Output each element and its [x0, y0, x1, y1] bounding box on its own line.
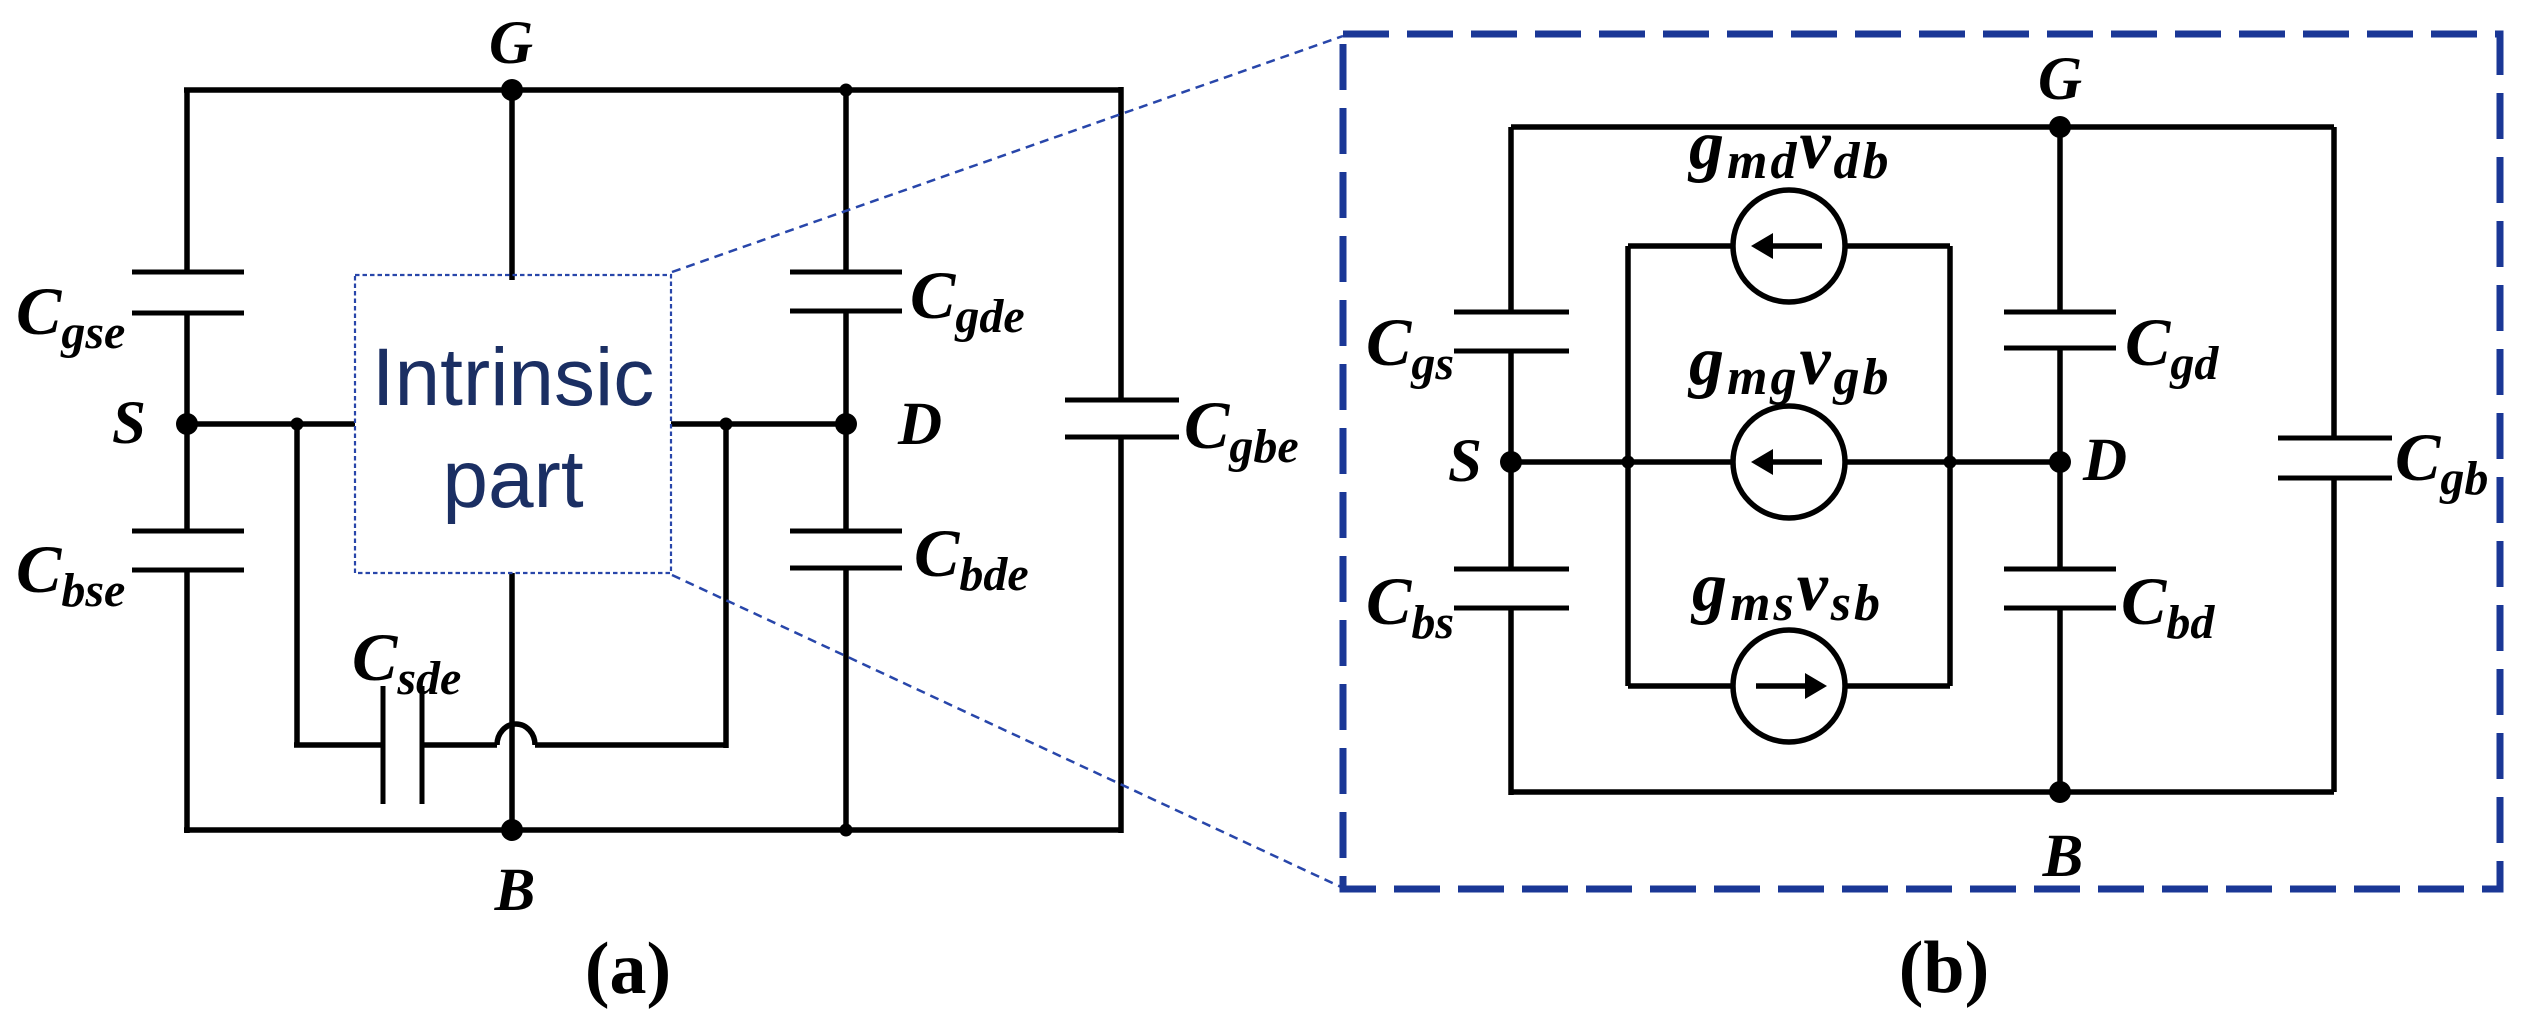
current source gmd circle [1733, 190, 1845, 302]
svg-text:S: S [112, 390, 146, 457]
wire inner rect bottom left segment (b) [1628, 683, 1733, 689]
wire top rail (b) [1511, 124, 2334, 130]
svg-text:G: G [489, 10, 533, 77]
wire inner rect left (b) [1625, 246, 1631, 686]
wire D rail middle (a) [843, 311, 849, 531]
wire inner rect bottom right segment (b) [1845, 683, 1950, 689]
wire G rail lower (b) [2057, 608, 2063, 792]
wire left rail lower (b) [1508, 608, 1514, 795]
junction dot bottom of D rail (a) [840, 824, 853, 837]
svg-text:Intrinsic: Intrinsic [372, 332, 655, 423]
wire right rail lower (b) [2331, 478, 2337, 792]
wire left rail middle (b) [1508, 351, 1514, 569]
wire intrinsic box to node D (a) [671, 421, 846, 427]
current source gmd arrow [1751, 233, 1822, 259]
wire left rail upper (a) [184, 90, 190, 272]
svg-text:D: D [2082, 427, 2127, 494]
current source gms arrow [1756, 673, 1827, 699]
junction dot inner left (b) [1622, 456, 1635, 469]
capacitor Cgb plates [2278, 436, 2392, 441]
wire D branch vertical (a) [723, 424, 729, 748]
wire inner rect top right segment (b) [1845, 243, 1950, 249]
wire S row left segment (b) [1511, 459, 1733, 465]
node S dot (a) [176, 413, 198, 435]
capacitor Cgbe plates [1065, 398, 1179, 403]
wire G rail middle (b) [2057, 348, 2063, 569]
wire inner rect right (b) [1947, 246, 1953, 686]
node B dot (a) [501, 819, 523, 841]
wire top rail (a) [184, 87, 1121, 93]
junction dot S branch (a) [291, 418, 304, 431]
svg-text:part: part [442, 434, 584, 525]
wire right rail upper (b) [2331, 127, 2337, 438]
current source gmg circle [1733, 406, 1845, 518]
wire S to intrinsic box (a) [187, 421, 355, 427]
wire D rail upper (a) [843, 90, 849, 272]
current source gmg arrow [1751, 449, 1822, 475]
capacitor Cbse plates [132, 529, 244, 534]
capacitor Cgs plates [1454, 310, 1569, 315]
wire bottom rail (a) [184, 827, 1121, 833]
svg-text:S: S [1448, 428, 1482, 495]
callout dashed line bottom [672, 575, 1341, 887]
junction dot inner right (b) [1944, 456, 1957, 469]
node G dot (a) [501, 79, 523, 101]
wire bottom rail (b) [1511, 789, 2334, 795]
intrinsic part box [355, 275, 671, 573]
wire hop to D branch vertical (a) [535, 742, 726, 748]
wire Csde branch horizontal to left plate (a) [294, 742, 383, 748]
node G dot (b) [2049, 116, 2071, 138]
svg-text:B: B [2042, 823, 2084, 890]
wire right rail lower (a) [1118, 437, 1124, 833]
wire intrinsic box bottom to node B (a) [509, 573, 515, 830]
wire left rail lower (a) [184, 570, 190, 833]
node S dot (b) [1500, 451, 1522, 473]
wire Csde right plate to hop (a) [422, 742, 497, 748]
wire G rail upper (b) [2057, 127, 2063, 312]
capacitor Cgd plates [2004, 310, 2116, 315]
wire left rail upper (b) [1508, 127, 1514, 312]
node D dot (b) [2049, 451, 2071, 473]
wire right rail upper (a) [1118, 87, 1124, 400]
wire Csde branch vertical from S row (a) [294, 424, 300, 745]
current source gms circle [1733, 630, 1845, 742]
dashed boundary box (b) [1343, 34, 2500, 889]
svg-text:G: G [2038, 46, 2082, 113]
wire hop over B stub (a) [497, 724, 535, 745]
svg-text:(b): (b) [1899, 927, 1989, 1009]
svg-text:(a): (a) [585, 928, 671, 1010]
capacitor Cgde plates [790, 270, 902, 275]
callout dashed line top [672, 36, 1343, 272]
capacitor Cgse plates [132, 270, 244, 275]
node D dot (a) [835, 413, 857, 435]
wire G stub into intrinsic box (a) [509, 90, 515, 280]
node B dot (b) [2049, 781, 2071, 803]
capacitor Csde plates [381, 686, 386, 804]
wire left rail middle (a) [184, 313, 190, 531]
junction dot D branch (a) [720, 418, 733, 431]
svg-text:D: D [897, 391, 942, 458]
capacitor Cbde plates [790, 529, 902, 534]
capacitor Cbd plates [2004, 567, 2116, 572]
wire inner rect top left segment (b) [1628, 243, 1733, 249]
wire S row right segment (b) [1845, 459, 2060, 465]
wire D rail lower (a) [843, 568, 849, 833]
capacitor Cbs plates [1454, 567, 1569, 572]
junction dot top of D rail (a) [840, 84, 853, 97]
svg-text:B: B [494, 857, 536, 924]
